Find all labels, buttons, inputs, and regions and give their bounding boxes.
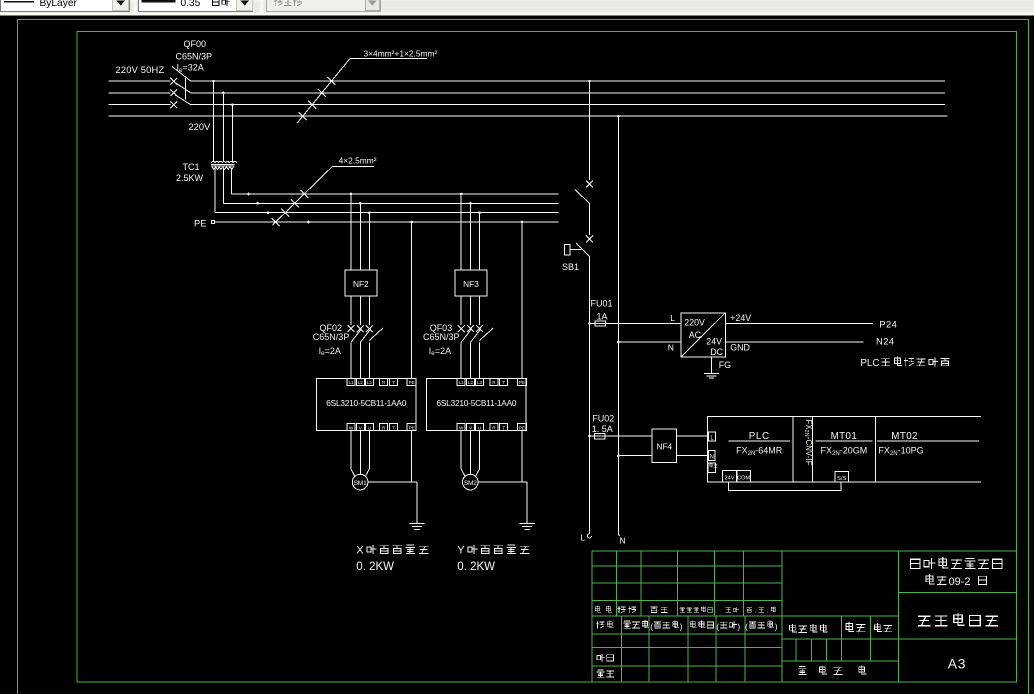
wire drive 1 V to motor [359, 431, 361, 475]
label supply L [670, 313, 675, 323]
wire NF4 to PLC N [677, 455, 708, 457]
svg-text:C65N/3P: C65N/3P [423, 332, 460, 342]
wire NF3 to QF03 pole2 [470, 296, 472, 325]
transformer TC1 [211, 161, 237, 169]
title block revision table grid [592, 551, 782, 682]
wire FG stem [710, 357, 712, 373]
label X servo motor [356, 545, 428, 573]
svg-text:N: N [620, 536, 626, 546]
wire +24V out [726, 323, 874, 325]
svg-text:SB1: SB1 [562, 262, 579, 272]
svg-text:COM: COM [737, 476, 750, 482]
wire drop to NF3 pole2 [469, 202, 472, 270]
wire L3 bus [109, 104, 945, 106]
ground FG [704, 373, 719, 378]
label biaoji header [595, 606, 611, 612]
wire TC1 primary drop 1 [212, 80, 215, 162]
module PLC FX2N-64MR [729, 431, 791, 457]
label qianming header [726, 607, 739, 612]
label Y servo motor [457, 545, 529, 573]
svg-text:09-2: 09-2 [949, 576, 971, 588]
label FU01 [591, 299, 613, 309]
label P24 [879, 320, 897, 330]
PLC terminal PE [708, 463, 717, 473]
filter NF4 [652, 429, 677, 462]
svg-text:PE: PE [194, 218, 206, 228]
power supply U2 220VAC/24VDC [681, 313, 726, 357]
svg-text:24V: 24V [725, 476, 735, 482]
svg-text:.: . [755, 607, 757, 614]
switch SB1 [565, 235, 593, 257]
label biaozhunhua [690, 621, 713, 628]
svg-text:L1: L1 [348, 380, 354, 385]
label jieduanbiaoji [790, 624, 828, 632]
svg-text:T: T [502, 380, 505, 385]
svg-text:QF00: QF00 [184, 39, 207, 49]
label FU02 1.5A [592, 424, 613, 434]
title block middle grid [782, 616, 899, 661]
label nianyueri header [747, 607, 776, 615]
wire L2 bus [109, 92, 945, 94]
svg-text:W: W [459, 425, 464, 430]
svg-text:24V: 24V [706, 336, 722, 346]
label qianming 2 [716, 621, 740, 631]
PLC assembly box [708, 417, 982, 483]
svg-text:SM1: SM1 [354, 480, 367, 487]
wire NF2 to QF02 pole3 [368, 296, 370, 325]
svg-text:TC1: TC1 [183, 162, 200, 172]
svg-text:PE: PE [409, 380, 415, 385]
svg-text:(: ( [716, 621, 719, 631]
svg-text:N24: N24 [876, 336, 895, 346]
label PE [194, 218, 206, 228]
svg-text:L: L [581, 533, 586, 543]
wire 24V to S/S [729, 482, 841, 490]
ground motor SM1 [409, 524, 424, 530]
svg-text:(: ( [650, 621, 653, 631]
wire NF2 to QF02 pole2 [359, 296, 361, 325]
svg-text:0.35: 0.35 [181, 0, 201, 9]
wire GND out [726, 341, 864, 343]
svg-text:FG: FG [719, 360, 731, 370]
wire TC1 secondary leg 1 [231, 168, 233, 194]
label QF03 C65N/3P [423, 332, 460, 342]
wire drop to NF3 pole3 [478, 211, 481, 270]
label SB1 [562, 262, 579, 272]
wire drive 2 PE to motor ground [521, 431, 523, 483]
wire L to power supply [590, 323, 682, 325]
label QF03 [430, 323, 453, 333]
wire drop to NF2 pole1 [350, 193, 353, 270]
svg-text:FX2N-CNV-IF: FX2N-CNV-IF [803, 420, 813, 466]
svg-text:T: T [502, 425, 505, 430]
svg-text:Y: Y [457, 545, 465, 557]
label gongyi [597, 670, 613, 677]
label sheji [596, 621, 613, 628]
svg-text:T: T [392, 380, 395, 385]
node PE terminal [212, 220, 215, 223]
wire PE line [215, 221, 559, 224]
label supply N [668, 342, 674, 352]
MT01 terminal S/S [835, 472, 848, 483]
wire drive 2 U to motor [476, 431, 480, 477]
svg-text:DC: DC [710, 347, 723, 357]
label nianyueri 2 [745, 621, 778, 632]
svg-text:N: N [710, 455, 714, 461]
svg-text:L: L [670, 313, 675, 323]
svg-text:U: U [368, 425, 371, 430]
svg-text:L3: L3 [477, 380, 483, 385]
label +24V [730, 313, 751, 323]
label nianyueri 1 [650, 621, 683, 632]
wire QF03 to drive pole2 [470, 342, 472, 378]
wire NF4 to PLC L [677, 435, 708, 437]
node L end [581, 533, 592, 543]
svg-text:U: U [478, 425, 481, 430]
svg-text:.: . [767, 607, 769, 614]
label QF03 Ie=2A [429, 346, 451, 357]
label class [926, 575, 986, 588]
svg-text:FX2N-10PG: FX2N-10PG [878, 446, 923, 457]
label university [911, 557, 1002, 568]
label GND [730, 343, 750, 353]
wire QF03 to drive pole3 [479, 342, 481, 378]
filter NF2 [345, 270, 377, 296]
wire L lower [588, 257, 591, 534]
wire drop to NF2 pole2 [359, 202, 362, 270]
svg-text:4×2.5mm²: 4×2.5mm² [339, 156, 377, 166]
wire NF3 to QF03 pole3 [479, 296, 481, 325]
svg-text:220V: 220V [684, 317, 705, 327]
wire motor SM1 to ground [368, 482, 417, 523]
label cable 4x2.5mm2 [339, 156, 377, 166]
svg-text:6SL3210-5CB11-1AA0: 6SL3210-5CB11-1AA0 [326, 398, 406, 408]
svg-text:PE: PE [519, 425, 525, 430]
wire TC1 secondary leg 2 [223, 168, 225, 203]
svg-text:NF3: NF3 [463, 279, 479, 289]
wire secondary U [232, 193, 559, 196]
label shenhe [597, 654, 613, 661]
wire N bus [109, 115, 948, 117]
ground motor SM2 [520, 524, 535, 530]
wire L tap [588, 80, 591, 180]
PLC terminal L [709, 432, 716, 442]
module MT01 FX2N-20GM [815, 431, 872, 457]
svg-text:1. 5A: 1. 5A [592, 424, 613, 434]
svg-text:(: ( [745, 621, 748, 631]
fuse FU01 [595, 321, 606, 326]
title block outline [592, 551, 1017, 682]
label gong zhang di zhang [798, 666, 865, 675]
svg-text:L3: L3 [367, 380, 373, 385]
wire L mid [589, 204, 591, 236]
svg-text:SM2: SM2 [464, 480, 477, 487]
wire N to power supply [618, 341, 681, 343]
svg-text:PE: PE [519, 380, 525, 385]
label bili [875, 624, 892, 632]
svg-text:2.5KW: 2.5KW [176, 173, 204, 183]
motor SM1 [352, 474, 368, 490]
wire QF02 to drive pole3 [368, 342, 370, 378]
wire QF02 to drive pole1 [350, 342, 352, 378]
motor SM2 [463, 474, 479, 490]
wire PE drop to drive 1 [410, 221, 413, 379]
svg-text:): ) [775, 621, 778, 631]
svg-text:C65N/3P: C65N/3P [176, 51, 213, 61]
svg-text:3×4mm²+1×2.5mm²: 3×4mm²+1×2.5mm² [364, 48, 438, 58]
wire drop to NF2 pole3 [368, 211, 371, 270]
servo drive U2 6SL3210-5CB11-1AA0 [427, 378, 527, 430]
wire QF02 to drive pole2 [359, 342, 361, 378]
wire N drop [617, 115, 620, 536]
label chushu header [618, 607, 636, 613]
toolbar separator 2 [261, 0, 264, 12]
module MT02 FX2N-10PG [877, 431, 979, 457]
svg-text:N: N [668, 342, 674, 352]
cable marker 4x2.5mm2 leader [272, 167, 374, 227]
svg-text:220V 50HZ: 220V 50HZ [116, 65, 165, 75]
PLC terminal N [709, 451, 716, 461]
svg-text:NF4: NF4 [656, 441, 672, 451]
label QF02 [320, 323, 343, 333]
svg-text:220V: 220V [189, 122, 212, 132]
wire secondary V [224, 202, 559, 205]
breaker QF02 [348, 325, 383, 342]
wire QF03 to drive pole1 [460, 342, 462, 378]
label FU01 1A [597, 311, 608, 321]
wire drive 2 V to motor [470, 431, 472, 475]
servo drive U1 6SL3210-5CB11-1AA0 [316, 378, 416, 430]
breaker QF03 [458, 325, 493, 342]
svg-text:PLC: PLC [860, 358, 879, 369]
wire TC1 primary drop 3 [231, 103, 234, 161]
wire PE drop to drive 2 [521, 221, 524, 379]
label sheet size A3 [948, 656, 966, 671]
label fenqu header [651, 607, 667, 613]
toolbar background [0, 0, 1034, 15]
svg-text:): ) [680, 621, 683, 631]
svg-text:1A: 1A [597, 311, 608, 321]
svg-text:PE: PE [409, 425, 415, 430]
label FU02 [592, 413, 614, 423]
svg-text:0. 2KW: 0. 2KW [356, 561, 394, 573]
svg-text:ByLayer: ByLayer [40, 0, 78, 9]
svg-text:+24V: +24V [730, 313, 751, 323]
PLC terminal 24V [723, 470, 737, 482]
toolbar combo lineweight 0.35 [139, 0, 253, 12]
label drawing title [919, 613, 998, 625]
label gengai header [680, 607, 713, 613]
module FX2N-CNV-IF [803, 420, 813, 466]
label TC1 2.5KW [176, 173, 204, 183]
svg-text:): ) [737, 621, 740, 631]
label QF00 [184, 39, 207, 49]
svg-text:FX2N-20GM: FX2N-20GM [821, 446, 868, 457]
label FG [719, 360, 731, 370]
svg-text:C65N/3P: C65N/3P [313, 332, 350, 342]
label QF02 Ie=2A [319, 346, 341, 357]
svg-text:6SL3210-5CB11-1AA0: 6SL3210-5CB11-1AA0 [436, 398, 516, 408]
svg-text:W: W [349, 425, 354, 430]
svg-text:AC: AC [689, 330, 702, 340]
svg-text:NF2: NF2 [353, 279, 369, 289]
fuse FU02 [595, 433, 606, 438]
wire drive 1 PE to motor ground [411, 431, 413, 483]
label 220V 50HZ [116, 65, 165, 75]
wire L1 bus [109, 80, 945, 82]
label QF02 C65N/3P [313, 332, 350, 342]
svg-text:S/S: S/S [837, 476, 846, 482]
label PLC io power [860, 357, 949, 369]
svg-text:L1: L1 [459, 380, 465, 385]
svg-text:FX2N-64MR: FX2N-64MR [736, 446, 783, 457]
svg-text:L2: L2 [358, 380, 364, 385]
svg-text:FU01: FU01 [591, 299, 613, 309]
svg-text:0. 2KW: 0. 2KW [457, 561, 495, 573]
svg-text:GND: GND [730, 343, 750, 353]
svg-text:A3: A3 [948, 656, 966, 671]
wire TC1 primary drop 2 [222, 92, 225, 162]
label N24 [876, 336, 895, 346]
wire NF3 to QF03 pole1 [460, 296, 462, 325]
label cable 3x4mm2+1x2.5mm2 [364, 48, 438, 58]
svg-text:FU02: FU02 [592, 413, 614, 423]
svg-text:L2: L2 [468, 380, 474, 385]
breaker QF00 [170, 67, 191, 109]
cable marker 3x4mm2+1x2.5mm2 leader [297, 59, 427, 124]
switch contact upper [575, 181, 593, 204]
label TC1 [183, 162, 200, 172]
label designer name [624, 620, 649, 628]
wire drive 1 W to motor [351, 431, 355, 477]
toolbar combo plot-style disabled [267, 0, 381, 12]
svg-text:T: T [392, 425, 395, 430]
filter NF3 [455, 270, 487, 296]
toolbar separator 1 [134, 0, 137, 12]
label zhongliang [846, 622, 865, 631]
wire TC1 secondary leg 3 [214, 168, 216, 213]
toolbar combo ByLayer [1, 0, 130, 12]
wire drive 2 W to motor [461, 431, 465, 477]
wire drop to NF3 pole1 [460, 193, 463, 270]
svg-text:P24: P24 [879, 320, 897, 330]
label QF00 C65N/3P [176, 51, 213, 61]
wire N to NF4 [618, 455, 652, 457]
label QF00 Ie=32A [177, 63, 204, 74]
svg-text:X: X [356, 545, 364, 557]
label 220V secondary [189, 122, 212, 132]
wire L to NF4 [590, 435, 653, 437]
PLC terminal COM [737, 470, 751, 482]
title block right grid [899, 593, 1017, 640]
wire NF2 to QF02 pole1 [350, 296, 352, 325]
wire motor SM2 to ground [478, 482, 527, 523]
wire drive 1 U to motor [366, 431, 370, 477]
wire secondary W [215, 211, 559, 214]
node N end [618, 533, 625, 545]
